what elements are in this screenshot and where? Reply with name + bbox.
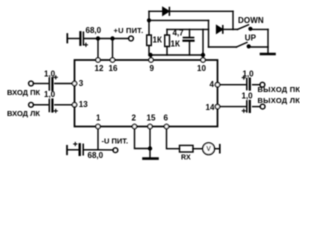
- svg-text:4: 4: [210, 80, 215, 89]
- ground top-right: [261, 53, 275, 56]
- wire pin16 drop: [112, 39, 114, 58]
- svg-text:+U ПИТ.: +U ПИТ.: [114, 26, 144, 35]
- capacitor C6 1,0 plates: [246, 101, 248, 112]
- resistor R1 1K: [147, 35, 152, 46]
- wire RX to voltmeter: [193, 148, 203, 150]
- wire pin1 drop: [97, 129, 99, 150]
- capacitor C2 4,7 top lead: [189, 29, 191, 37]
- node bus-pin10: [202, 54, 205, 57]
- pin 14: [215, 104, 219, 108]
- wire input ПК left: [34, 83, 48, 85]
- wire line2 horizontal: [149, 19, 209, 21]
- svg-text:15: 15: [147, 113, 156, 122]
- pin 16: [110, 58, 114, 62]
- node junction rail-pin12: [97, 37, 100, 40]
- resistor RX: [180, 145, 194, 152]
- plus C5: [242, 76, 246, 80]
- wire pin12 drop: [97, 39, 99, 58]
- wire input ЛК left: [34, 104, 48, 106]
- pin 2: [132, 124, 136, 128]
- plus C3: [54, 75, 58, 79]
- wire power rail top-left: [68, 38, 79, 40]
- pin 15: [148, 124, 152, 128]
- terminal tick left of C1: [66, 34, 68, 43]
- pin 6: [164, 124, 168, 128]
- svg-text:14: 14: [206, 103, 215, 112]
- plus C6: [242, 109, 246, 113]
- svg-text:ВЫХОД ПК: ВЫХОД ПК: [258, 85, 301, 94]
- wire C7 to pin1 junction: [84, 149, 98, 151]
- node junction rail-pin16: [111, 37, 114, 40]
- terminal -U ПИТ.: [113, 148, 118, 153]
- svg-text:1,0: 1,0: [242, 91, 254, 100]
- pin 9: [149, 58, 153, 62]
- wire pin9 stub: [150, 55, 152, 58]
- svg-text:68,0: 68,0: [88, 151, 104, 160]
- switch SA1 DOWN: [233, 25, 268, 30]
- svg-text:68,0: 68,0: [86, 26, 102, 35]
- wire UP net vertical: [208, 20, 210, 47]
- wire right vertical to ground: [267, 29, 269, 53]
- svg-text:3: 3: [79, 79, 84, 88]
- svg-text:16: 16: [109, 64, 118, 73]
- output ПК terminal: [260, 82, 265, 87]
- svg-text:12: 12: [95, 64, 104, 73]
- wire top corner down: [232, 11, 234, 29]
- wire top net vertical at R1: [148, 11, 150, 35]
- wire R2 top lead: [166, 29, 168, 35]
- svg-text:ВХОД ПК: ВХОД ПК: [7, 88, 40, 97]
- svg-text:V: V: [206, 146, 211, 153]
- pin 4: [215, 83, 219, 87]
- wire rail to +U terminal: [85, 38, 129, 40]
- plus C7: [73, 142, 77, 146]
- svg-text:9: 9: [150, 64, 155, 73]
- wire C7 left lead: [68, 149, 79, 151]
- svg-text:UP: UP: [245, 33, 257, 42]
- pin 3: [72, 81, 76, 85]
- svg-text:1,0: 1,0: [243, 69, 255, 78]
- wire VD2 to corner: [223, 28, 233, 30]
- wire pin1 to -U terminal: [98, 149, 113, 151]
- capacitor C7 68,0 plates: [78, 144, 80, 155]
- svg-text:ВХОД ЛК: ВХОД ЛК: [7, 109, 40, 118]
- capacitor C4 1,0 plates: [48, 100, 50, 112]
- svg-text:-U ПИТ.: -U ПИТ.: [102, 136, 129, 145]
- svg-text:10: 10: [197, 64, 206, 73]
- svg-text:DOWN: DOWN: [238, 16, 264, 25]
- svg-text:1,0: 1,0: [44, 70, 56, 79]
- wire input ЛК right: [55, 104, 72, 106]
- voltmeter PV1: [203, 143, 215, 155]
- IC U1 body: [75, 60, 218, 127]
- terminal tick right of voltmeter: [219, 145, 221, 153]
- diode VD2: [217, 26, 223, 33]
- wire output ЛК left: [220, 106, 246, 108]
- svg-text:ВЫХОД ЛК: ВЫХОД ЛК: [258, 96, 301, 105]
- pin 12: [96, 58, 100, 62]
- svg-text:2: 2: [132, 113, 137, 122]
- wire top horizontal: [149, 10, 233, 12]
- wire parallel net y29: [167, 28, 209, 30]
- svg-text:1,0: 1,0: [44, 90, 56, 99]
- diode VD1: [163, 8, 170, 16]
- capacitor C1 68,0 plates: [79, 32, 81, 45]
- pin 13: [72, 103, 76, 107]
- plus C1: [84, 43, 88, 47]
- switch SA2 UP: [209, 42, 269, 47]
- input ПК terminal: [29, 81, 34, 86]
- wire bottom bus of R1 R2 C2: [149, 54, 203, 56]
- capacitor C2 plates: [184, 37, 194, 39]
- terminal tick left of C7: [66, 146, 68, 155]
- svg-text:1К: 1К: [171, 39, 180, 48]
- capacitor C2 bottom lead: [189, 42, 191, 56]
- wire R1 bottom lead: [148, 46, 150, 56]
- node bus-pin9: [149, 54, 152, 57]
- wire output ПК left: [220, 84, 246, 86]
- plus C4: [54, 109, 58, 113]
- wire pin10 vertical: [202, 29, 204, 57]
- terminal +U ПИТ.: [129, 36, 134, 41]
- node pin2-pin15: [149, 147, 152, 150]
- wire pin15 drop: [149, 129, 151, 158]
- wire output ЛК right: [253, 106, 261, 108]
- output ЛК terminal: [260, 104, 265, 109]
- svg-text:13: 13: [79, 100, 88, 109]
- pin 1: [96, 124, 100, 128]
- input ЛК terminal: [29, 102, 34, 107]
- wire pin2 drop: [135, 129, 151, 149]
- svg-text:4,7: 4,7: [173, 28, 185, 37]
- wire pin6 drop: [167, 129, 180, 149]
- node junction line2: [148, 19, 151, 22]
- wire voltmeter right: [215, 148, 220, 150]
- svg-text:1К: 1К: [153, 36, 162, 45]
- ground bottom: [144, 157, 158, 160]
- svg-text:6: 6: [164, 113, 169, 122]
- capacitor C3 1,0 plates: [48, 78, 50, 90]
- wire R2 bottom lead: [166, 47, 168, 56]
- wire output ПК right: [253, 84, 260, 86]
- svg-text:1: 1: [96, 113, 101, 122]
- capacitor C5 1,0 plates: [246, 79, 248, 90]
- svg-text:RX: RX: [181, 155, 191, 162]
- pin 10: [201, 58, 205, 62]
- wire input ПК right: [55, 83, 72, 85]
- resistor R2 1K: [165, 35, 170, 47]
